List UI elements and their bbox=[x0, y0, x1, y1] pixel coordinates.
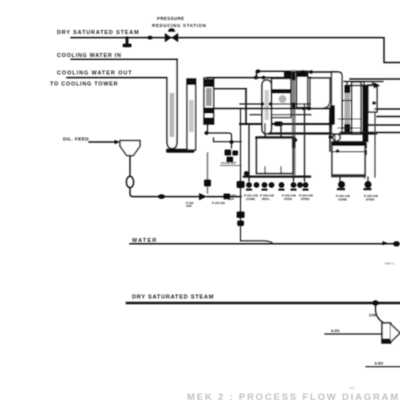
node: dot (374,103) bbox=[372, 101, 376, 105]
wire: cooling water out bbox=[67, 77, 167, 79]
wire: short y100 bbox=[342, 100, 352, 102]
svg-text:BTMS: BTMS bbox=[301, 197, 310, 201]
svg-text:DIL. FEED: DIL. FEED bbox=[63, 137, 89, 143]
vessel: flash drum box bbox=[257, 138, 294, 174]
ejector: body bbox=[382, 323, 391, 343]
wire: bottom steam line bbox=[127, 302, 400, 305]
node: dot y71 bbox=[256, 69, 261, 73]
vessel: V-4 tall bbox=[332, 72, 343, 134]
vessel: V-1 bbox=[204, 78, 214, 124]
wire: water line bbox=[130, 243, 396, 245]
node: steam junction bbox=[147, 36, 152, 40]
wire: y133.5 line bbox=[269, 132, 376, 134]
svg-text:P-100 A/B: P-100 A/B bbox=[212, 201, 225, 205]
svg-text:A-302: A-302 bbox=[375, 362, 384, 366]
wire: line y72 over R2-R3 bbox=[296, 71, 337, 73]
wire: y133 branch with valves bbox=[206, 133, 232, 148]
wire: branch y71 bbox=[257, 71, 309, 77]
node: dot on bottom steam bbox=[372, 300, 378, 305]
valve: blob on x207 bbox=[204, 180, 211, 187]
wire: bottom small line bbox=[366, 366, 400, 368]
wire: funnel outlet bbox=[129, 156, 131, 177]
arrow: feed arrowhead bbox=[115, 140, 121, 144]
wire: y88 branch bbox=[214, 88, 246, 90]
vessel: feed funnel bbox=[120, 141, 140, 156]
svg-text:COOLING WATER IN: COOLING WATER IN bbox=[57, 53, 122, 59]
wire: ladder y114.7 bbox=[250, 114, 311, 116]
column: capsule C-1 bbox=[262, 80, 271, 134]
vessel: R-3 bbox=[310, 78, 330, 108]
svg-text:TO COOLING TOWER: TO COOLING TOWER bbox=[50, 82, 118, 88]
pipe: vertical gray pipe x293 bbox=[292, 70, 296, 177]
wire: ejector suction line bbox=[325, 333, 382, 335]
valve: square on y196 bbox=[224, 194, 231, 200]
wire: top connect y81.5 bbox=[344, 81, 383, 83]
wire: steam header top bbox=[71, 38, 400, 63]
svg-text:A-301: A-301 bbox=[331, 329, 340, 333]
wire: V1 bottom outlet bbox=[207, 124, 209, 133]
pipe: P1 dark lower bbox=[292, 137, 296, 148]
bar: black column V-6 bbox=[363, 86, 369, 142]
arrow into R-5 bbox=[374, 82, 381, 88]
vessel: drum R-1 lower bbox=[272, 109, 291, 118]
wire: y241 line to right edge bbox=[241, 241, 273, 243]
vessel: drum R-1 bbox=[272, 79, 291, 109]
node: blob near P1 bottom bbox=[293, 138, 297, 142]
svg-text:PRESSURE: PRESSURE bbox=[157, 16, 184, 21]
svg-text:BTMS: BTMS bbox=[366, 198, 375, 202]
svg-text:COOLING WATER OUT: COOLING WATER OUT bbox=[57, 71, 133, 77]
wire: steam to ejector bbox=[376, 304, 384, 323]
valve cluster bbox=[225, 150, 232, 156]
wire: cooling water in bbox=[71, 58, 177, 60]
bar: V-5 bbox=[345, 85, 351, 132]
wire: to vaporizer bbox=[130, 188, 199, 197]
node: dots on y77 bbox=[254, 76, 259, 80]
wire: pump drops bbox=[249, 104, 305, 181]
labels: pump tags bbox=[228, 194, 314, 202]
wire: y108 header bbox=[214, 109, 331, 152]
wire: vertical x240.5 with valves bbox=[240, 109, 242, 241]
vessel: R-2 bbox=[297, 72, 308, 108]
wire: right side lines bbox=[350, 78, 400, 80]
pipe: gray vertical x207 bbox=[207, 153, 209, 193]
vessel: R-5 bbox=[368, 85, 377, 112]
node: dot left of flash box bbox=[244, 171, 249, 176]
svg-text:MEK-1: MEK-1 bbox=[385, 262, 395, 266]
svg-text:DRY SATURATED STEAM: DRY SATURATED STEAM bbox=[57, 30, 140, 36]
svg-text:4-2: 4-2 bbox=[349, 385, 356, 390]
steam trap T symbol bbox=[126, 38, 129, 44]
wire: tray lines right block bbox=[338, 119, 361, 128]
exchanger bottom cap bar bbox=[166, 149, 195, 153]
vessel: vertical exchanger E-1 bbox=[167, 59, 177, 148]
wire: pump suction header bbox=[244, 175, 310, 177]
pumps: P-105 / P-106 bbox=[340, 177, 368, 181]
svg-text:COND.: COND. bbox=[246, 197, 256, 201]
svg-text:FEED: FEED bbox=[284, 197, 293, 201]
vessel: reboiler box B-1 bbox=[332, 142, 365, 177]
wire: vertical x375 bbox=[374, 112, 376, 177]
svg-text:VAP.: VAP. bbox=[186, 204, 192, 208]
arrow: feed into vaporizer bbox=[199, 193, 207, 200]
wire: y196 to valve square bbox=[207, 196, 241, 198]
svg-text:LV-101 SET: LV-101 SET bbox=[221, 161, 236, 165]
vessel: R-4 bbox=[352, 82, 361, 134]
svg-text:STM: STM bbox=[369, 314, 376, 318]
node: dots y108 bbox=[302, 107, 306, 110]
svg-text:DRY SATURATED STEAM: DRY SATURATED STEAM bbox=[132, 295, 214, 301]
pump row P-101..P-104 bbox=[246, 182, 309, 191]
svg-text:COND.: COND. bbox=[338, 198, 348, 202]
node: dot (337.5,151) bbox=[336, 149, 340, 153]
node: big dot feed line bbox=[158, 194, 165, 199]
vessel: narrow column V-0 bbox=[187, 79, 196, 150]
wire: condenser water header y77 bbox=[208, 78, 312, 84]
wire: feed line bbox=[89, 141, 115, 143]
node: water line end blob bbox=[393, 241, 400, 246]
wire: y124 line bbox=[240, 123, 340, 125]
svg-text:REFL.: REFL. bbox=[262, 197, 271, 201]
valve: rotameter oval bbox=[127, 177, 134, 188]
wire: ladder y104 bbox=[240, 103, 310, 105]
svg-text:MEK 2 : PROCESS FLOW DIAGRAM: MEK 2 : PROCESS FLOW DIAGRAM bbox=[187, 392, 400, 400]
valve: pressure reducing valve bbox=[165, 33, 178, 42]
labels: tiny tags under feed line bbox=[186, 201, 225, 208]
svg-text:REDUCING STATION: REDUCING STATION bbox=[152, 23, 206, 28]
